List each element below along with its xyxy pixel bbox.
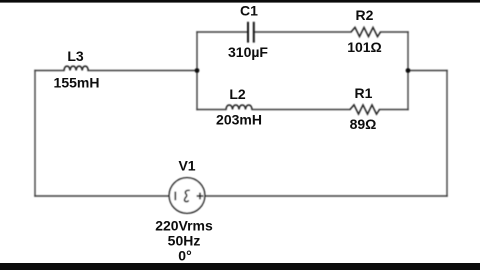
V1 plus sign (197, 193, 204, 200)
wire: mid-left horizontal segment after L3 to left node (88, 70, 197, 72)
wire: mid-right horizontal from right node (408, 70, 447, 72)
svg-text:0°: 0° (178, 248, 191, 264)
wire: bottom rail left of L2 (197, 109, 226, 111)
svg-text:R1: R1 (355, 85, 373, 101)
wire: right node vertical (x=408) (407, 32, 409, 110)
svg-text:89Ω: 89Ω (350, 116, 377, 132)
top letterbox bar (0, 0, 480, 3)
svg-text:L3: L3 (67, 48, 84, 64)
wire: top rail right of R2 (381, 31, 409, 33)
inductor L2 symbol (226, 105, 252, 110)
wire: left outer vertical (34, 71, 36, 197)
svg-text:220Vrms: 220Vrms (155, 218, 213, 234)
svg-text:V1: V1 (178, 158, 195, 174)
wire: right outer vertical (446, 71, 448, 197)
V1 minus terminal bar (174, 192, 176, 201)
resistor R1 symbol (350, 105, 380, 114)
wire: bottom horizontal right of V1 (205, 195, 447, 197)
inductor L3 symbol (64, 66, 88, 70)
wire: bottom horizontal left of V1 (35, 195, 169, 197)
capacitor C1 symbol (248, 22, 254, 43)
node B junction dot (right, x=408 y=70.5) (406, 68, 411, 73)
AC source V1 circle (169, 178, 205, 214)
wire: bottom rail right of R1 (380, 109, 409, 111)
svg-text:L2: L2 (229, 86, 246, 102)
wire: left node vertical (x=197) (196, 32, 198, 110)
svg-text:50Hz: 50Hz (168, 233, 201, 249)
wire: bottom rail between L2 and R1 (252, 109, 350, 111)
svg-text:C1: C1 (240, 3, 258, 19)
wire: top rail between C1 and R2 (255, 31, 351, 33)
wire: mid-left horizontal (source loop top) segment before L3 (35, 70, 64, 72)
svg-text:R2: R2 (356, 7, 374, 23)
resistor R2 symbol (351, 27, 381, 36)
wire: top rail left of C1 (197, 31, 247, 33)
node A junction dot (left, x=197 y=70.5) (195, 68, 200, 73)
svg-text:155mH: 155mH (54, 75, 100, 91)
V1 sine squiggle (185, 190, 190, 201)
svg-text:203mH: 203mH (216, 112, 262, 128)
svg-text:310µF: 310µF (228, 44, 268, 60)
bottom letterbox bar (0, 263, 480, 270)
svg-text:101Ω: 101Ω (347, 39, 382, 55)
